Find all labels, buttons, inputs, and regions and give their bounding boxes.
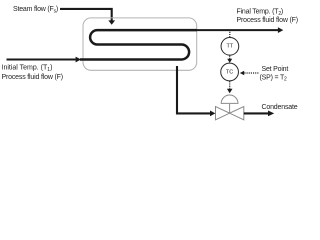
svg-text:Initial Temp. (T1): Initial Temp. (T1) xyxy=(2,65,53,73)
wire: dotted signal line TC to valve actuator with arrowhead xyxy=(227,81,233,93)
svg-text:Steam flow (Fs): Steam flow (Fs) xyxy=(13,6,58,14)
wire: dotted signal line from outlet line down to TT xyxy=(229,32,231,37)
svg-text:TC: TC xyxy=(226,69,233,75)
heat exchanger shell E1 xyxy=(83,18,197,70)
wire: dotted signal line TT to TC with arrowhead xyxy=(227,56,232,63)
wire: dotted set-point input arrow into TC xyxy=(240,71,259,75)
wire: condensate outlet line with arrowhead xyxy=(244,111,274,117)
wire: steam supply line xyxy=(60,9,115,25)
wire: process fluid inlet line xyxy=(7,57,82,63)
heat-exchanger coil (serpentine tube) xyxy=(80,30,197,59)
control valve V1 body (bowtie) xyxy=(216,107,244,120)
valve actuator diaphragm (dome) xyxy=(221,95,238,113)
wire: process fluid outlet arrowhead xyxy=(278,27,283,33)
wire: condensate line from shell bottom to valve xyxy=(177,66,215,116)
instrument TT (temperature transmitter) xyxy=(221,37,239,55)
wire: process fluid outlet line xyxy=(196,29,278,31)
svg-text:(SP) = T2: (SP) = T2 xyxy=(260,74,288,82)
svg-text:Condensate: Condensate xyxy=(262,104,298,111)
svg-text:Process fluid flow (F): Process fluid flow (F) xyxy=(237,17,298,24)
instrument TC (temperature controller) xyxy=(221,63,239,81)
svg-text:Set Point: Set Point xyxy=(262,66,289,73)
svg-text:TT: TT xyxy=(227,44,234,50)
svg-text:Final Temp. (T2): Final Temp. (T2) xyxy=(237,8,284,16)
svg-text:Process fluid flow (F): Process fluid flow (F) xyxy=(2,74,63,81)
